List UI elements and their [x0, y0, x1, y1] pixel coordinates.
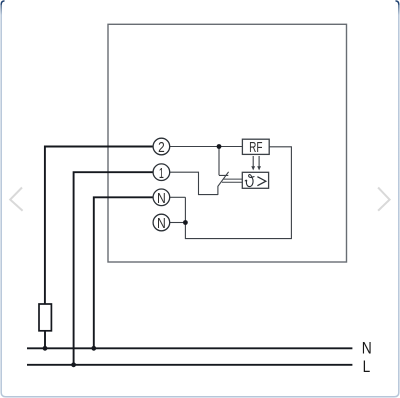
- terminal 1: [153, 164, 170, 182]
- actuator linkage double line: [222, 179, 242, 182]
- wire: terminal N right segment: [170, 196, 186, 198]
- svg-text:N: N: [157, 215, 166, 232]
- svg-text:L: L: [363, 357, 371, 376]
- arrow RF to sensor (right): [257, 156, 261, 170]
- arrow RF to sensor (left): [251, 156, 255, 170]
- wire: terminal 1 to switch pivot: [170, 172, 218, 194]
- device outline box: [108, 24, 347, 262]
- svg-text:1: 1: [159, 165, 164, 182]
- terminal N (upper): [153, 189, 170, 207]
- wire: terminal 1 to external L line: [74, 172, 154, 365]
- RF block: [242, 139, 269, 156]
- wire: terminal N to external N line: [94, 197, 153, 348]
- svg-text:RF: RF: [249, 139, 262, 156]
- wire: resistor bottom to N line: [44, 331, 46, 349]
- mains line L: [27, 364, 352, 366]
- wire: terminal N2 right segment: [170, 222, 186, 224]
- terminal N (lower): [153, 214, 170, 232]
- resistor (load): [39, 304, 51, 331]
- terminal 2: [153, 138, 170, 156]
- svg-text:N: N: [157, 190, 166, 207]
- relay switch blade: [218, 172, 229, 195]
- relay switch fixed contact: [219, 147, 228, 176]
- theta glyph: [245, 174, 254, 186]
- left carousel chevron: [10, 188, 22, 211]
- junction dot 1 wire / L line: [71, 362, 76, 367]
- mains line N: [27, 347, 352, 349]
- wire: terminal 2 to external left drop: [45, 147, 153, 305]
- thermostat sensor block: [242, 172, 268, 188]
- right carousel chevron: [378, 188, 390, 211]
- junction dot on terminal-2 wire: [217, 144, 222, 149]
- junction dot at N loop: [183, 220, 188, 225]
- greater-than symbol: [257, 177, 266, 186]
- svg-text:2: 2: [158, 139, 165, 156]
- wire: internal N loop: [185, 147, 291, 239]
- junction dot N wire / N line: [91, 346, 96, 351]
- junction dot resistor / N line: [43, 346, 48, 351]
- svg-text:N: N: [362, 339, 372, 358]
- wire: terminal 2 to RF: [170, 146, 243, 148]
